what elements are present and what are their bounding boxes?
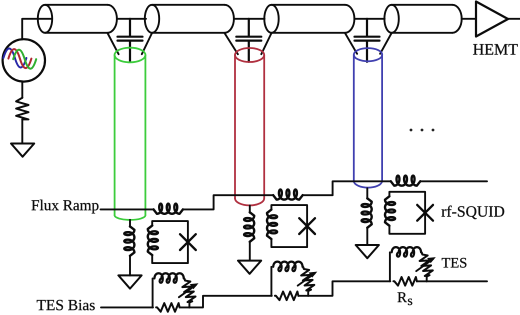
coax segment 4 <box>384 5 461 33</box>
resonator 2 coupling inductor <box>244 212 254 241</box>
flux ramp wire step 1-2 <box>183 195 273 209</box>
resonator 3 (blue quarter-wave) <box>354 48 382 188</box>
funnel taper 3 <box>345 33 392 54</box>
flux coil L3 <box>391 176 420 186</box>
rf-SQUID loop 3 <box>385 192 433 234</box>
resonator 1 tail wire <box>129 220 131 227</box>
ellipsis dots <box>410 129 435 132</box>
label Flux Ramp <box>32 200 99 214</box>
resistor R source termination <box>16 98 28 120</box>
resonator 3 tail wire <box>366 188 368 198</box>
funnel taper 2 <box>225 33 272 54</box>
coax segment 1 <box>38 5 117 33</box>
coax segment 3 <box>264 5 354 33</box>
funnel taper 1 <box>108 33 153 54</box>
label TES <box>442 258 467 268</box>
wire resistor to ground <box>21 119 23 143</box>
label HEMT <box>473 44 518 54</box>
TES bias wire step 2-3 <box>308 281 390 296</box>
label TES Bias <box>37 300 95 310</box>
rf-SQUID loop 1 <box>148 221 196 263</box>
coupling capacitor C1 <box>118 19 143 62</box>
source circle V1 <box>3 39 45 81</box>
HEMT amplifier <box>476 2 508 37</box>
wire to ground 2 <box>249 242 251 261</box>
wire feed junction 1 <box>117 18 146 20</box>
resonator 2 (red quarter-wave) <box>235 48 264 205</box>
TES block 1 <box>153 273 199 311</box>
resonator 1 coupling inductor <box>124 226 134 255</box>
flux ramp wire level 1 <box>101 208 154 210</box>
TES bias wire level 1 <box>101 306 153 308</box>
source sine wave green <box>13 50 36 69</box>
flux ramp wire end <box>420 180 487 182</box>
coax segment 2 <box>145 5 234 33</box>
ground (source) <box>11 144 34 157</box>
wire feed junction 2 <box>234 18 265 20</box>
flux coil L2 <box>273 190 302 200</box>
source sine wave blue <box>3 49 26 68</box>
wire source to resistor <box>21 82 23 98</box>
resonator 1 (green quarter-wave) <box>115 48 146 220</box>
ground (resonator 2) <box>238 261 261 274</box>
wire source to feedline <box>22 19 52 39</box>
ground (resonator 1) <box>118 275 141 288</box>
wire to ground 3 <box>366 228 368 245</box>
resonator 2 tail wire <box>249 206 251 213</box>
flux ramp wire step 2-3 <box>303 181 391 195</box>
ground (resonator 3) <box>356 245 379 258</box>
rf-SQUID loop 2 <box>267 205 315 247</box>
resonator 3 coupling inductor <box>362 198 372 227</box>
wire feed junction 3 <box>354 18 384 20</box>
coupling capacitor C2 <box>236 19 261 62</box>
label rf-SQUID <box>442 206 505 220</box>
TES block 3 <box>390 247 436 285</box>
wire feed to HEMT <box>462 18 476 20</box>
TES block 2 <box>271 262 317 300</box>
label Rs <box>398 292 407 302</box>
TES bias wire step 1-2 <box>189 296 271 308</box>
wire HEMT output <box>508 18 520 20</box>
source sine wave red <box>8 49 31 68</box>
wire to ground 1 <box>129 256 131 276</box>
flux coil L1 <box>154 204 183 214</box>
coupling capacitor C3 <box>355 19 380 62</box>
TES bias wire end <box>427 280 487 282</box>
